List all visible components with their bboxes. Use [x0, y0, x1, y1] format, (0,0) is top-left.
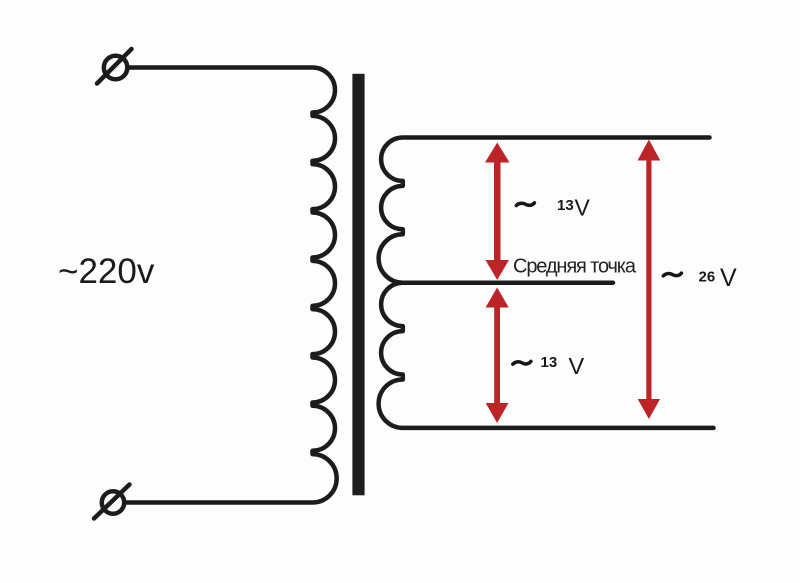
svg-text:Средняя точка: Средняя точка	[513, 256, 637, 278]
svg-text:~220v: ~220v	[58, 252, 155, 291]
svg-text:V: V	[720, 264, 737, 292]
svg-text:13: 13	[541, 354, 558, 371]
svg-text:26: 26	[699, 269, 716, 286]
svg-text:V: V	[575, 195, 591, 221]
svg-text:V: V	[569, 353, 585, 379]
svg-text:13: 13	[557, 197, 574, 214]
